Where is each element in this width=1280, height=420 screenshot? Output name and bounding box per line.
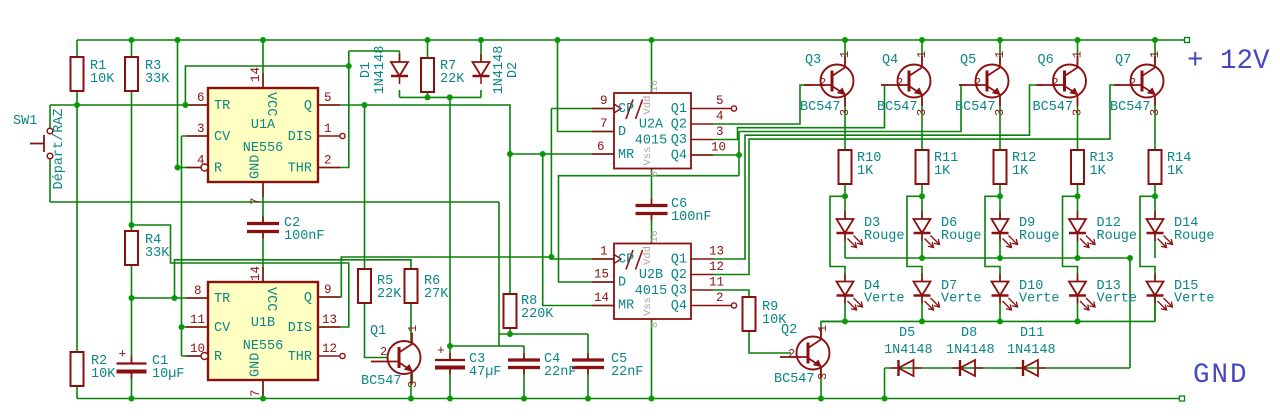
svg-text:TR: TR [214, 99, 230, 114]
svg-text:VCC: VCC [263, 287, 278, 311]
svg-text:2: 2 [788, 347, 795, 361]
svg-text:2: 2 [380, 345, 387, 359]
svg-text:9: 9 [324, 283, 332, 297]
svg-text:BC547: BC547 [1110, 100, 1151, 115]
svg-text:4015: 4015 [635, 284, 667, 299]
svg-text:R: R [214, 350, 222, 365]
svg-text:1: 1 [1071, 51, 1085, 58]
svg-text:NE556: NE556 [243, 339, 284, 354]
svg-text:10: 10 [711, 141, 726, 155]
svg-text:1N4148: 1N4148 [373, 46, 388, 95]
svg-text:4015: 4015 [635, 134, 667, 149]
svg-text:47µF: 47µF [469, 365, 501, 380]
svg-text:1: 1 [600, 245, 608, 259]
svg-text:Q7: Q7 [1115, 53, 1131, 68]
svg-text:TR: TR [214, 292, 230, 307]
svg-text:CP: CP [618, 102, 634, 117]
svg-text:Vss: Vss [642, 297, 654, 316]
svg-text:7: 7 [249, 389, 263, 397]
svg-text:CP: CP [618, 253, 634, 268]
svg-text:CV: CV [214, 130, 231, 145]
svg-text:Rouge: Rouge [864, 229, 905, 244]
svg-text:10K: 10K [90, 72, 115, 87]
svg-text:27K: 27K [424, 287, 449, 302]
svg-text:MR: MR [618, 299, 634, 314]
svg-text:12: 12 [322, 342, 337, 356]
svg-text:BC547: BC547 [774, 372, 815, 387]
svg-text:Q2: Q2 [781, 323, 797, 338]
svg-text:D1: D1 [359, 62, 374, 78]
svg-text:D: D [618, 276, 626, 291]
svg-text:1K: 1K [934, 164, 951, 179]
svg-text:Q: Q [304, 291, 312, 306]
svg-text:3: 3 [1071, 109, 1085, 116]
svg-text:1: 1 [915, 51, 929, 58]
svg-text:3: 3 [406, 381, 420, 388]
svg-text:5: 5 [716, 94, 724, 108]
svg-text:Q2: Q2 [671, 268, 687, 283]
svg-text:Q4: Q4 [671, 149, 687, 164]
svg-text:13: 13 [709, 245, 724, 259]
svg-text:VCC: VCC [263, 92, 278, 116]
svg-text:Q2: Q2 [671, 118, 687, 133]
svg-text:22K: 22K [440, 72, 465, 87]
svg-text:+ 12V: + 12V [1187, 46, 1270, 77]
svg-text:NE556: NE556 [243, 141, 284, 156]
svg-text:DIS: DIS [288, 321, 312, 336]
svg-text:14: 14 [249, 266, 263, 281]
svg-text:Q3: Q3 [805, 53, 821, 68]
svg-text:2: 2 [324, 154, 332, 168]
svg-text:2: 2 [819, 76, 826, 90]
svg-text:1: 1 [993, 51, 1007, 58]
svg-text:+: + [119, 347, 127, 362]
svg-text:33K: 33K [145, 72, 170, 87]
svg-text:4: 4 [197, 154, 205, 168]
svg-text:3: 3 [993, 109, 1007, 116]
svg-text:Q4: Q4 [882, 53, 898, 68]
svg-text:1: 1 [838, 51, 852, 58]
svg-text:10µF: 10µF [152, 367, 184, 382]
svg-text:1N4148: 1N4148 [492, 46, 507, 95]
svg-text:2: 2 [974, 76, 981, 90]
svg-text:22K: 22K [377, 287, 402, 302]
svg-text:BC547: BC547 [1033, 100, 1074, 115]
svg-text:2: 2 [1129, 76, 1136, 90]
svg-text:Départ/RAZ: Départ/RAZ [52, 108, 67, 189]
svg-text:Q4: Q4 [671, 299, 687, 314]
svg-text:Q3: Q3 [671, 133, 687, 148]
svg-text:16: 16 [650, 230, 661, 242]
svg-text:BC547: BC547 [800, 100, 841, 115]
svg-text:D11: D11 [1020, 326, 1044, 341]
svg-text:Rouge: Rouge [941, 229, 982, 244]
svg-text:Verte: Verte [941, 292, 982, 307]
svg-text:1N4148: 1N4148 [884, 343, 933, 358]
svg-text:22nF: 22nF [544, 365, 576, 380]
svg-text:33K: 33K [145, 246, 170, 261]
svg-text:100nF: 100nF [284, 229, 325, 244]
svg-text:Q3: Q3 [671, 284, 687, 299]
svg-text:14: 14 [594, 291, 609, 305]
svg-text:13: 13 [322, 313, 337, 327]
svg-text:BC547: BC547 [361, 374, 402, 389]
svg-text:DIS: DIS [288, 130, 312, 145]
svg-text:10: 10 [190, 342, 205, 356]
svg-text:Q: Q [304, 99, 312, 114]
svg-text:Verte: Verte [864, 292, 905, 307]
svg-text:3: 3 [915, 109, 929, 116]
svg-text:GND: GND [1193, 360, 1249, 391]
svg-text:Q1: Q1 [370, 324, 386, 339]
svg-text:1: 1 [406, 325, 420, 332]
svg-text:14: 14 [249, 67, 263, 82]
svg-text:6: 6 [597, 140, 605, 154]
svg-text:15: 15 [594, 268, 609, 282]
svg-text:D: D [618, 125, 626, 140]
svg-text:Q6: Q6 [1038, 53, 1054, 68]
svg-text:BC547: BC547 [955, 100, 996, 115]
svg-text:3: 3 [1148, 109, 1162, 116]
svg-text:Rouge: Rouge [1097, 229, 1138, 244]
svg-text:4: 4 [716, 110, 724, 124]
svg-text:9: 9 [600, 94, 608, 108]
svg-text:3: 3 [816, 373, 830, 380]
svg-text:THR: THR [288, 162, 312, 177]
svg-text:1: 1 [324, 122, 332, 136]
svg-text:THR: THR [288, 350, 312, 365]
svg-text:GND: GND [249, 353, 264, 377]
svg-text:2: 2 [716, 291, 724, 305]
svg-text:6: 6 [197, 91, 205, 105]
svg-text:Verte: Verte [1019, 292, 1060, 307]
svg-text:1: 1 [816, 325, 830, 332]
svg-text:MR: MR [618, 148, 634, 163]
svg-text:U2B: U2B [639, 268, 663, 283]
svg-text:12: 12 [709, 260, 724, 274]
svg-text:SW1: SW1 [13, 114, 37, 129]
svg-text:Verte: Verte [1174, 292, 1215, 307]
svg-text:Vdd: Vdd [642, 96, 654, 115]
svg-text:11: 11 [190, 313, 205, 327]
svg-text:U1B: U1B [251, 316, 275, 331]
svg-text:16: 16 [650, 80, 661, 92]
svg-text:Q1: Q1 [671, 253, 687, 268]
svg-text:7: 7 [600, 117, 608, 131]
svg-text:1K: 1K [1167, 164, 1184, 179]
svg-text:11: 11 [709, 276, 724, 290]
svg-text:8: 8 [650, 322, 661, 328]
svg-text:D2: D2 [506, 62, 521, 78]
svg-text:8: 8 [194, 284, 202, 298]
svg-text:CV: CV [214, 321, 231, 336]
svg-text:Verte: Verte [1097, 292, 1138, 307]
svg-text:1N4148: 1N4148 [946, 343, 995, 358]
svg-text:1N4148: 1N4148 [1007, 343, 1056, 358]
svg-text:5: 5 [324, 91, 332, 105]
svg-text:Rouge: Rouge [1019, 229, 1060, 244]
svg-text:2: 2 [896, 76, 903, 90]
svg-text:3: 3 [838, 109, 852, 116]
svg-text:+: + [437, 343, 445, 358]
svg-text:Q1: Q1 [671, 102, 687, 117]
svg-text:D8: D8 [961, 326, 977, 341]
svg-text:1K: 1K [1090, 164, 1107, 179]
svg-text:10K: 10K [91, 367, 116, 382]
svg-text:Vss: Vss [642, 147, 654, 166]
svg-text:R: R [214, 162, 222, 177]
svg-text:GND: GND [249, 155, 264, 179]
svg-text:Vdd: Vdd [642, 246, 654, 265]
svg-text:1: 1 [1148, 51, 1162, 58]
svg-text:1K: 1K [857, 164, 874, 179]
svg-text:7: 7 [249, 197, 263, 205]
svg-text:22nF: 22nF [611, 365, 643, 380]
svg-text:U1A: U1A [251, 118, 276, 133]
svg-text:U2A: U2A [639, 118, 664, 133]
svg-text:D5: D5 [899, 326, 915, 341]
svg-text:3: 3 [716, 125, 724, 139]
svg-text:8: 8 [650, 171, 661, 177]
svg-text:1K: 1K [1012, 164, 1029, 179]
svg-text:220K: 220K [521, 307, 554, 322]
svg-text:3: 3 [197, 122, 205, 136]
svg-text:BC547: BC547 [877, 100, 918, 115]
svg-text:Rouge: Rouge [1174, 229, 1215, 244]
svg-text:Q5: Q5 [960, 53, 976, 68]
svg-text:2: 2 [1052, 76, 1059, 90]
svg-text:100nF: 100nF [671, 210, 712, 225]
